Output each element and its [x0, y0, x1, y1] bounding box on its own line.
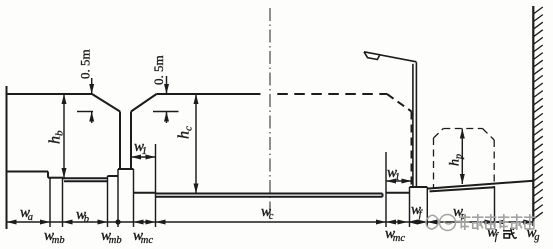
- wall hatching: [533, 7, 543, 219]
- label 0.5m left (rotated): [78, 49, 93, 79]
- svg-text:g: g: [534, 232, 539, 243]
- w_1 dimension right (lateral clearance): [386, 180, 412, 182]
- curb ledge right of motor lanes: [386, 192, 410, 194]
- dimension arrows w_c: [156, 220, 166, 225]
- pedestrian clearance dashed box left side: [433, 138, 435, 188]
- w_1 dimension left (lateral clearance): [131, 156, 156, 158]
- label 0.5m middle (rotated): [151, 55, 166, 85]
- label h_p (rotated): [448, 154, 465, 166]
- motor pavement top line: [156, 193, 383, 195]
- pedestrian clearance dashed chamfer left: [434, 129, 444, 139]
- motor lane clearance top edge (dashed mirrored half): [277, 93, 387, 95]
- svg-text:0. 5m: 0. 5m: [151, 55, 166, 85]
- dimension arrows w_b: [63, 220, 73, 225]
- left property/building line: [6, 86, 8, 229]
- h_c dimension line: [195, 94, 197, 194]
- sidewalk surface bottom line: [430, 187, 495, 191]
- building wall line right: [532, 6, 534, 226]
- left sidewalk surface (w_a strip): [7, 171, 49, 173]
- 0.5m lower reference line left: [77, 111, 93, 113]
- svg-text:c: c: [269, 211, 274, 222]
- 0.5m lower reference line middle: [153, 111, 179, 113]
- 0.5m dimension motor box: [166, 76, 168, 94]
- dashed right chamfer of clearance: [387, 94, 412, 112]
- 0.5m dimension left box: [91, 78, 93, 94]
- extension line w_p right: [494, 187, 496, 228]
- lamp pole left line: [412, 64, 414, 187]
- non-motorized lane clearance box (h_b) top edge: [7, 93, 93, 95]
- svg-text:1: 1: [395, 172, 400, 183]
- facility-strip curb block right side / extension: [426, 187, 428, 227]
- extension line w_c right / curb: [385, 152, 387, 227]
- h_p dimension line: [461, 129, 463, 185]
- chain junction dot: [115, 219, 120, 224]
- dimension arrows w_mc right: [386, 220, 396, 225]
- motor lane clearance box top edge (solid half): [157, 93, 261, 95]
- watermark characters: [459, 214, 471, 230]
- label h_b (rotated): [47, 130, 66, 144]
- svg-text:h: h: [176, 131, 193, 139]
- extension line w_b right / curb face: [107, 176, 109, 227]
- svg-text:b: b: [54, 130, 66, 136]
- svg-text:mb: mb: [109, 235, 122, 246]
- dimension arrows w_mc: [134, 220, 144, 225]
- svg-text:f: f: [495, 232, 500, 243]
- svg-text:b: b: [84, 214, 89, 225]
- median pedestal right side / extension: [133, 169, 135, 227]
- watermark logo blob: [426, 215, 439, 229]
- pedestrian clearance dashed chamfer right: [483, 129, 495, 141]
- svg-text:1: 1: [142, 146, 147, 157]
- sidewalk surface top line: [427, 181, 533, 189]
- svg-text:h: h: [47, 136, 64, 144]
- h_b dimension line: [63, 94, 65, 178]
- left box right face: [119, 112, 121, 170]
- pedestrian clearance dashed top: [443, 128, 482, 130]
- w_mb strip surface: [48, 177, 63, 179]
- curb face at motor pavement right end: [382, 194, 384, 197]
- svg-text:p: p: [454, 154, 465, 160]
- svg-text:mc: mc: [393, 233, 406, 244]
- lamp bracket arm: [364, 52, 416, 62]
- dimension arrows w_f: [408, 220, 418, 225]
- dimension arrows w_a: [7, 220, 17, 225]
- extension line w_b left / curb face: [62, 178, 64, 227]
- bike-lane pavement bottom line: [64, 180, 108, 182]
- svg-text:a: a: [28, 212, 33, 223]
- median column left face: [119, 112, 121, 170]
- watermark dash: [456, 221, 463, 223]
- dimension arrows w_f-or-w_g: [495, 220, 505, 225]
- curb ledge left of motor lanes: [134, 192, 156, 194]
- svg-text:f: f: [419, 209, 424, 220]
- dimension arrows w_p: [427, 220, 437, 225]
- lamp pole right line: [415, 62, 417, 187]
- curb ledge right of bike lane: [108, 175, 119, 177]
- bike-lane pavement top line: [63, 177, 108, 179]
- pedestrian clearance dashed right side: [493, 140, 495, 187]
- facility-strip curb block left side / extension: [409, 187, 411, 227]
- median pedestal left side / extension: [117, 169, 119, 227]
- svg-text:mc: mc: [141, 235, 154, 246]
- svg-text:mb: mb: [52, 235, 65, 246]
- motor lane clearance box (h_c) left chamfer: [131, 94, 157, 112]
- svg-text:c: c: [183, 126, 195, 131]
- dashed right face of clearance: [411, 112, 413, 188]
- svg-text:h: h: [448, 159, 463, 166]
- watermark logo circle: [440, 215, 456, 231]
- label h_c (rotated): [176, 126, 195, 139]
- extension line w_a right: [49, 178, 51, 227]
- median pedestal top: [118, 168, 134, 170]
- curb step at w_a/w_mb: [47, 172, 49, 178]
- extension line w_c left / curb: [155, 144, 157, 227]
- facility-strip curb block top: [410, 186, 428, 188]
- bottom dimension chain line: [7, 221, 534, 223]
- svg-text:0. 5m: 0. 5m: [78, 49, 93, 79]
- lamp luminaire head: [364, 52, 380, 60]
- road centerline (dash-dot): [269, 8, 271, 215]
- character HUO (or) drawn strokes: [503, 228, 517, 239]
- left box corner chamfer: [92, 94, 120, 112]
- median column right face: [130, 112, 132, 170]
- motor pavement bottom line: [156, 196, 383, 198]
